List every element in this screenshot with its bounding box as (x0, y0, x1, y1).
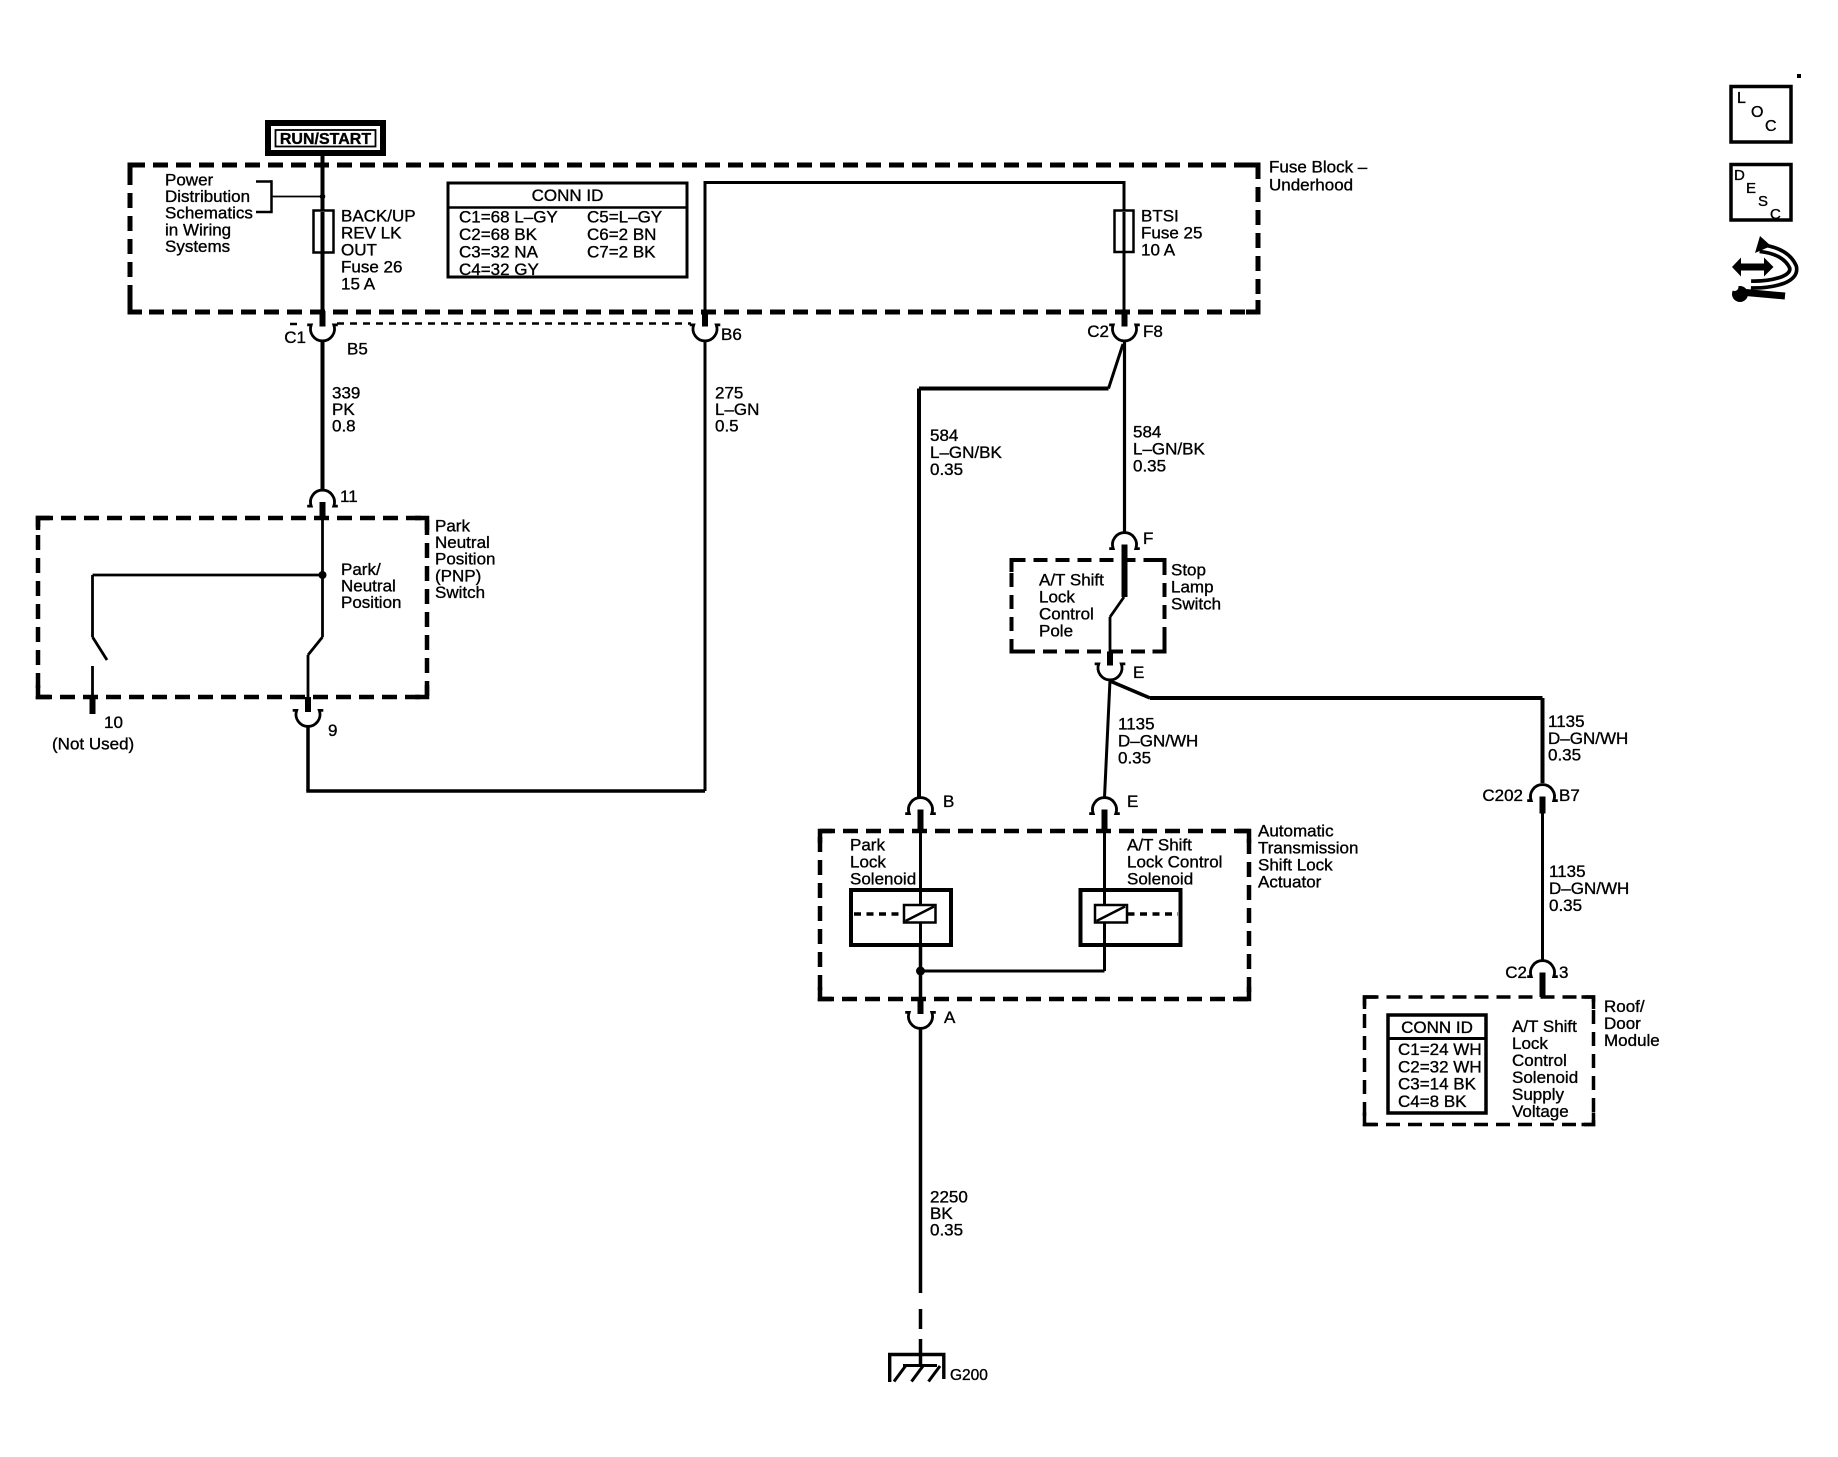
wire 1135 D-GN/WH 0.35 (lower) (1541, 814, 1544, 961)
solenoid L1 park lock (919, 831, 922, 890)
connector table CONN ID (fuse block) (448, 183, 687, 277)
svg-text:F8: F8 (1143, 322, 1163, 341)
connector pin F (stop lamp switch) (1109, 533, 1140, 549)
connector pin 11 (PNP switch) (307, 490, 338, 506)
wire 275 L-GN 0.5 from pin 9 to B6 (306, 727, 310, 792)
wire E to E (1105, 680, 1111, 798)
svg-text:Pole: Pole (1039, 622, 1073, 641)
pin 10 contact (91, 666, 94, 697)
svg-text:Module: Module (1604, 1031, 1660, 1050)
svg-text:Fuse Block –: Fuse Block – (1269, 158, 1368, 177)
svg-text:0.35: 0.35 (1549, 896, 1582, 915)
svg-text:15 A: 15 A (341, 275, 376, 294)
svg-text:C202: C202 (1482, 786, 1523, 805)
PNP switch box (38, 518, 427, 697)
svg-text:E: E (1133, 663, 1144, 682)
svg-text:B: B (943, 792, 954, 811)
svg-text:D: D (1734, 167, 1745, 184)
stop lamp switch box (1012, 560, 1165, 652)
svg-text:O: O (1751, 104, 1763, 121)
svg-text:A: A (944, 1008, 956, 1027)
connector table CONN ID (roof/door module) (1388, 1015, 1486, 1113)
svg-text:Systems: Systems (165, 237, 230, 256)
svg-text:C1=24 WH: C1=24 WH (1398, 1040, 1482, 1059)
switch blade pin 10 (open) (93, 637, 108, 660)
connector pin A (918, 999, 924, 1014)
node Park/Neutral Position (319, 571, 327, 579)
svg-text:C5=L–GY: C5=L–GY (587, 208, 662, 227)
svg-text:C3=14 BK: C3=14 BK (1398, 1075, 1477, 1094)
svg-text:9: 9 (328, 721, 337, 740)
fuse F26 BACK/UP REV LK OUT Fuse 26 15 A (321, 212, 325, 312)
ground G200 (919, 1339, 923, 1365)
connector C2 pin F8 (1122, 311, 1128, 327)
svg-text:10 A: 10 A (1141, 241, 1176, 260)
svg-text:C2: C2 (1087, 322, 1109, 341)
svg-text:RUN/START: RUN/START (280, 131, 371, 148)
svg-text:(Not Used): (Not Used) (52, 735, 134, 754)
power node RUN/START (268, 123, 383, 153)
icon wiring repair (1732, 258, 1741, 277)
wire 339 PK 0.8 (321, 341, 325, 490)
svg-text:C6=2 BN: C6=2 BN (587, 225, 656, 244)
svg-text:B6: B6 (721, 325, 742, 344)
svg-text:CONN ID: CONN ID (1401, 1018, 1473, 1037)
svg-text:C4=32 GY: C4=32 GY (459, 260, 539, 279)
svg-text:E: E (1746, 180, 1756, 197)
svg-text:C1=68 L–GY: C1=68 L–GY (459, 208, 558, 227)
icon DESC (1731, 165, 1791, 221)
svg-text:G200: G200 (950, 1367, 988, 1384)
svg-text:C: C (1770, 206, 1781, 223)
svg-text:Switch: Switch (435, 583, 485, 602)
wire RUN/START feed to Fuse 26 (321, 156, 325, 212)
svg-text:0.5: 0.5 (715, 417, 739, 436)
wire 1135 D-GN/WH to C202 (1110, 681, 1150, 698)
stray mark (1797, 74, 1801, 78)
switch pole (stop lamp) (1122, 558, 1128, 597)
connector C2 pin 3 (1527, 961, 1558, 977)
connector C202 pin B7 (1527, 785, 1558, 801)
svg-text:Underhood: Underhood (1269, 176, 1353, 195)
svg-text:C: C (1765, 118, 1777, 135)
svg-text:L: L (1737, 90, 1746, 107)
note bracket (256, 180, 272, 183)
svg-text:F: F (1143, 529, 1153, 548)
svg-text:10: 10 (104, 713, 123, 732)
icon LOC (1731, 87, 1791, 143)
svg-text:Position: Position (341, 593, 401, 612)
solenoid L2 A/T shift lock control (1103, 831, 1106, 890)
roof/door module box (1365, 997, 1594, 1125)
svg-text:0.8: 0.8 (332, 417, 356, 436)
svg-text:S: S (1758, 193, 1768, 210)
wire 2250 BK 0.35 (919, 1029, 923, 1294)
svg-text:0.35: 0.35 (1118, 749, 1151, 768)
svg-text:11: 11 (340, 487, 358, 506)
fuse F25 BTSI Fuse 25 10 A (1123, 210, 1126, 312)
svg-text:E: E (1127, 792, 1138, 811)
svg-text:B5: B5 (347, 340, 368, 359)
automatic transmission shift lock actuator box (820, 831, 1249, 999)
connector pin 9 (305, 697, 311, 712)
wire B6 to BTSI fuse (705, 183, 1124, 313)
svg-text:CONN ID: CONN ID (532, 186, 604, 205)
svg-text:C2=32 WH: C2=32 WH (1398, 1057, 1482, 1076)
svg-text:C3=32 NA: C3=32 NA (459, 243, 539, 262)
wire solenoid outputs to pin A (919, 945, 923, 999)
svg-text:C7=2 BK: C7=2 BK (587, 243, 656, 262)
dotted connector line C1 to B6 (337, 322, 691, 325)
svg-text:Solenoid: Solenoid (1127, 870, 1193, 889)
connector pin B (park lock solenoid) (905, 798, 936, 814)
wire 584 L-GN/BK left branch (1109, 344, 1124, 389)
svg-text:C2=68 BK: C2=68 BK (459, 225, 538, 244)
svg-text:Voltage: Voltage (1512, 1102, 1569, 1121)
junction node solenoid common (916, 967, 925, 976)
svg-text:Actuator: Actuator (1258, 873, 1322, 892)
svg-text:C1: C1 (284, 328, 306, 347)
svg-text:0.35: 0.35 (930, 460, 963, 479)
svg-text:C4=8 BK: C4=8 BK (1398, 1092, 1467, 1111)
switch path to pin 9 (closed) (321, 575, 324, 637)
connector pin E (stop lamp) (1107, 652, 1113, 666)
connector B6 (702, 311, 708, 327)
svg-text:0.35: 0.35 (930, 1221, 963, 1240)
fuse block - underhood box (130, 165, 1258, 312)
svg-text:B7: B7 (1559, 786, 1580, 805)
junction dot on fuse feed (320, 194, 326, 200)
svg-text:Solenoid: Solenoid (850, 870, 916, 889)
svg-text:0.35: 0.35 (1548, 746, 1581, 765)
svg-text:Switch: Switch (1171, 595, 1221, 614)
wire pin 11 to junction (321, 519, 324, 575)
svg-text:3: 3 (1559, 963, 1568, 982)
svg-text:C2: C2 (1505, 963, 1527, 982)
connector pin E (A/T shift lock solenoid) (1089, 798, 1120, 814)
wire junction to left contact (93, 574, 323, 577)
wire 584 L-GN/BK right branch (1123, 341, 1126, 533)
connector C1 pin B5 (320, 311, 326, 327)
svg-text:0.35: 0.35 (1133, 456, 1166, 475)
